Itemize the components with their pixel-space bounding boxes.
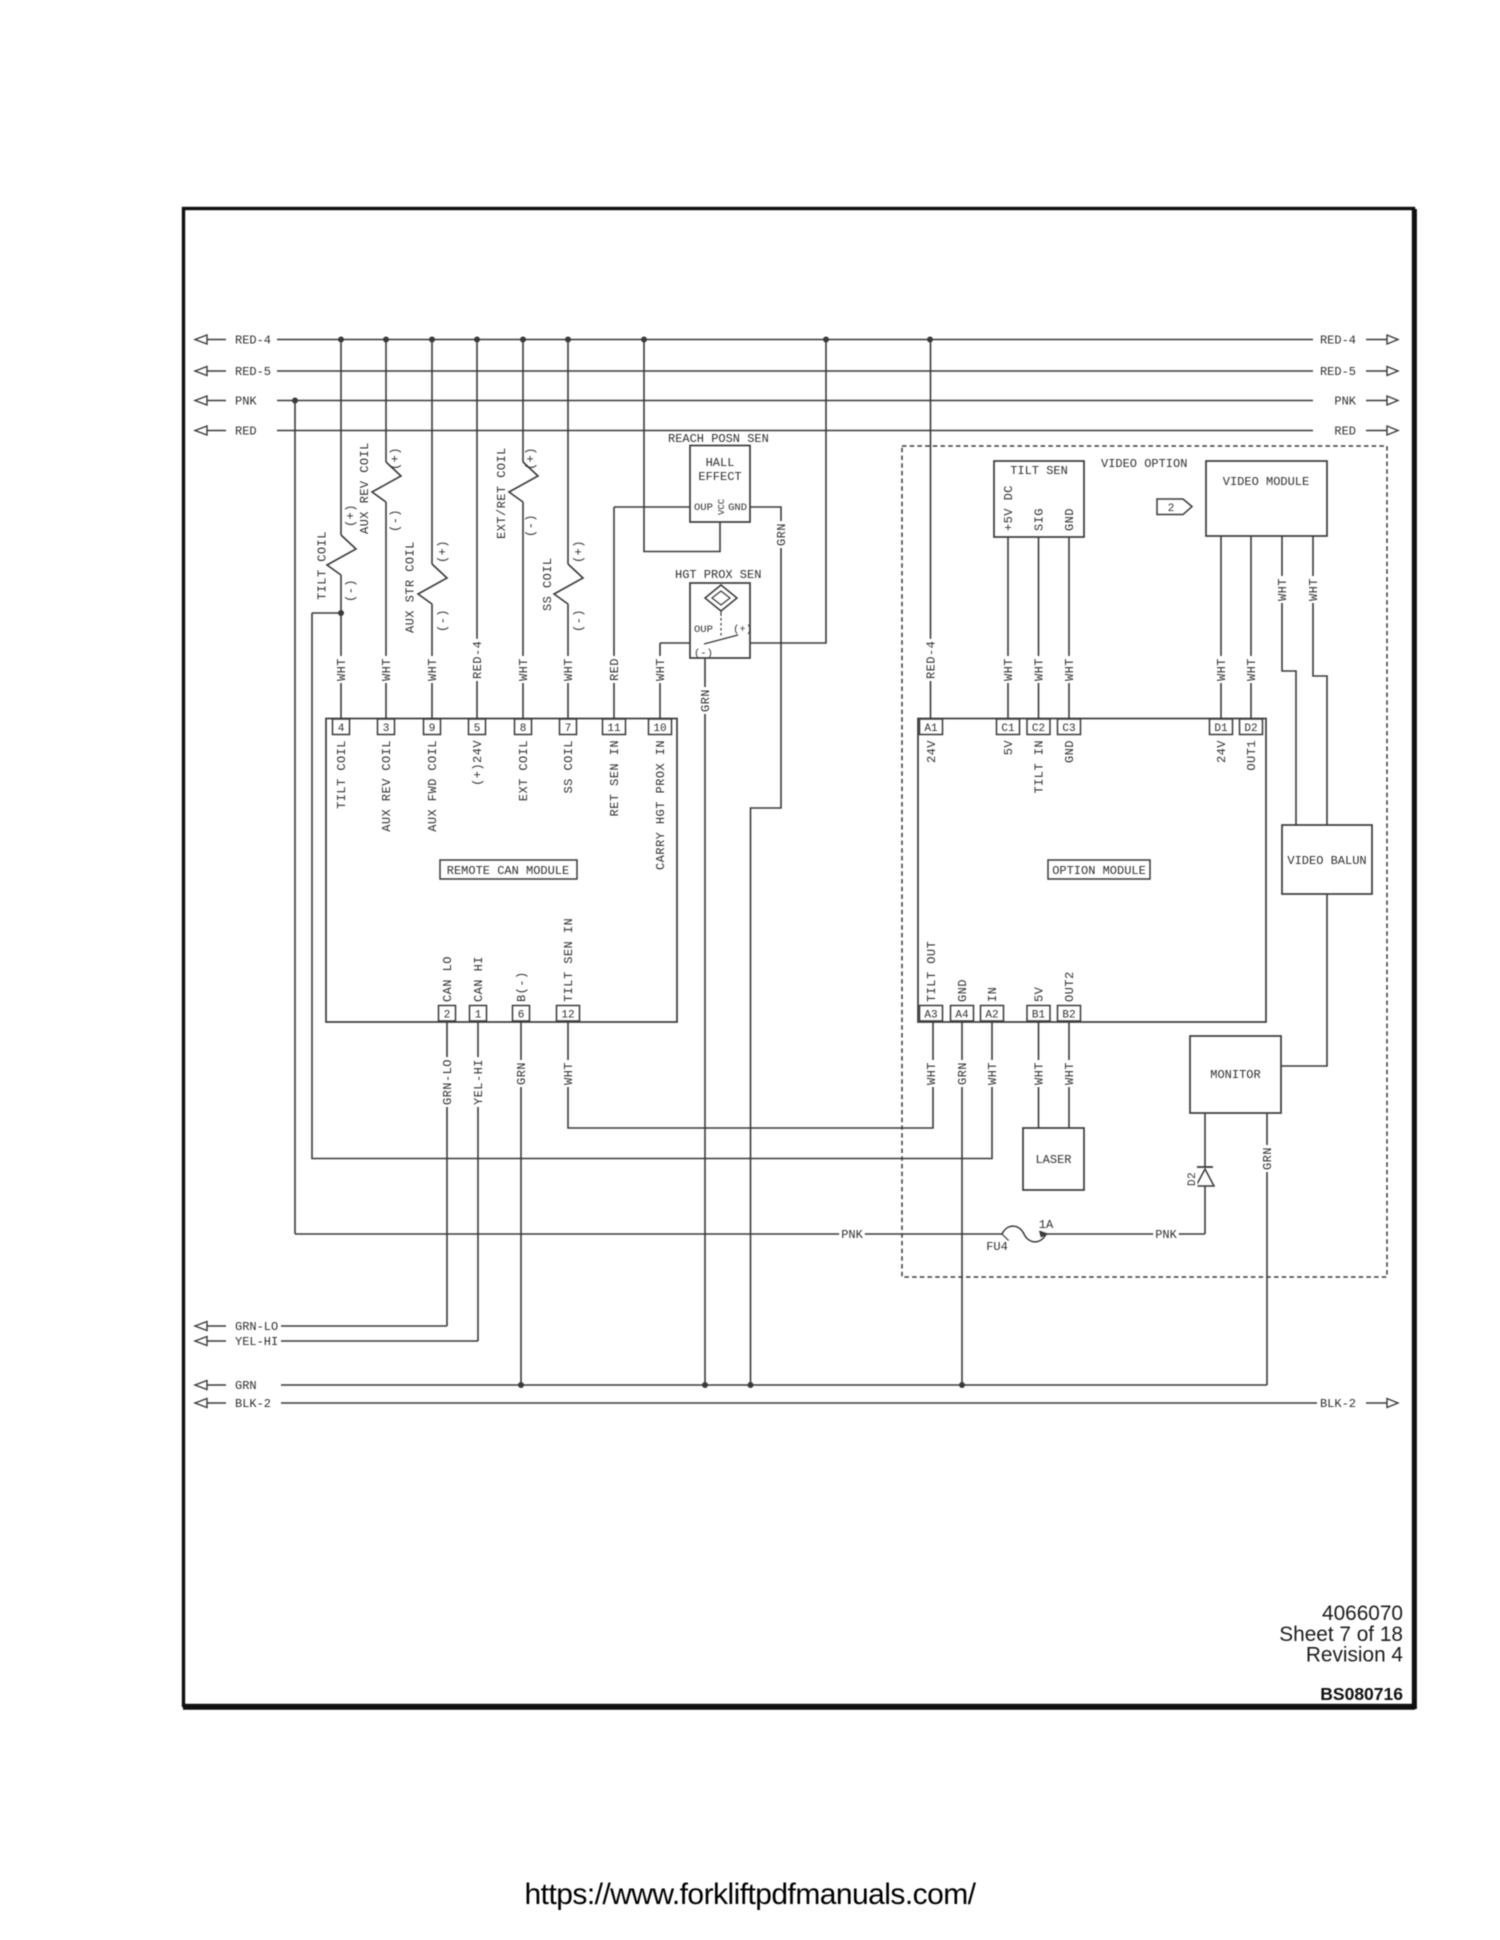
svg-text:BS080716: BS080716 [1320, 1684, 1403, 1704]
svg-text:(+): (+) [389, 447, 403, 470]
svg-text:3: 3 [383, 723, 390, 735]
svg-text:HGT PROX SEN: HGT PROX SEN [675, 568, 761, 582]
svg-text:1A: 1A [1039, 1218, 1054, 1232]
svg-text:(+)24V: (+)24V [471, 740, 485, 786]
svg-text:1: 1 [475, 1010, 482, 1022]
svg-text:WHT: WHT [1063, 658, 1077, 681]
svg-text:A4: A4 [955, 1010, 969, 1022]
svg-text:WHT: WHT [1033, 1062, 1047, 1085]
svg-text:WHT: WHT [1002, 658, 1016, 681]
svg-text:HALL: HALL [706, 456, 735, 470]
svg-text:AUX STR COIL: AUX STR COIL [404, 541, 418, 633]
svg-text:C1: C1 [1001, 723, 1015, 735]
svg-text:WHT: WHT [654, 658, 668, 681]
svg-text:IN: IN [986, 987, 1000, 1002]
svg-text:11: 11 [607, 723, 621, 735]
svg-text:PNK: PNK [841, 1228, 863, 1242]
svg-text:GRN: GRN [775, 523, 789, 546]
svg-text:(-): (-) [572, 609, 586, 632]
svg-text:CARRY HGT PROX IN: CARRY HGT PROX IN [654, 740, 668, 870]
svg-text:(-): (-) [524, 514, 538, 537]
svg-text:AUX REV COIL: AUX REV COIL [358, 442, 372, 534]
svg-text:RET SEN IN: RET SEN IN [608, 740, 622, 817]
svg-text:(+): (+) [733, 624, 752, 636]
svg-text:(+): (+) [344, 504, 358, 527]
svg-text:RED-4: RED-4 [235, 334, 271, 348]
svg-text:WHT: WHT [562, 1062, 576, 1085]
svg-text:TILT IN: TILT IN [1033, 740, 1047, 794]
svg-text:OUP: OUP [694, 502, 713, 514]
svg-text:2: 2 [444, 1010, 451, 1022]
svg-text:A1: A1 [924, 723, 938, 735]
svg-text:VIDEO BALUN: VIDEO BALUN [1287, 854, 1366, 868]
svg-text:5V: 5V [1002, 740, 1016, 756]
svg-text:AUX FWD COIL: AUX FWD COIL [426, 740, 440, 832]
svg-text:RED-5: RED-5 [235, 365, 271, 379]
svg-text:YEL-HI: YEL-HI [235, 1335, 278, 1349]
svg-text:WHT: WHT [380, 658, 394, 681]
svg-text:SS COIL: SS COIL [562, 740, 576, 794]
svg-text:VIDEO OPTION: VIDEO OPTION [1101, 457, 1187, 471]
svg-text:WHT: WHT [426, 658, 440, 681]
svg-text:4: 4 [338, 723, 345, 735]
svg-text:VCC: VCC [717, 498, 727, 515]
svg-text:(-): (-) [436, 609, 450, 632]
svg-text:9: 9 [429, 723, 436, 735]
svg-text:RED-4: RED-4 [471, 641, 485, 679]
svg-text:Revision 4: Revision 4 [1306, 1644, 1403, 1667]
svg-text:C2: C2 [1032, 723, 1045, 735]
svg-text:GRN: GRN [699, 689, 713, 712]
svg-text:8: 8 [520, 723, 527, 735]
svg-text:B1: B1 [1032, 1010, 1046, 1022]
svg-text:WHT: WHT [562, 658, 576, 681]
svg-text:WHT: WHT [335, 658, 349, 681]
svg-text:6: 6 [518, 1010, 525, 1022]
svg-text:YEL-HI: YEL-HI [472, 1059, 486, 1105]
svg-text:A2: A2 [985, 1010, 998, 1022]
svg-text:EFFECT: EFFECT [698, 470, 741, 484]
svg-text:WHT: WHT [1033, 658, 1047, 681]
svg-text:WHT: WHT [1215, 658, 1229, 681]
svg-text:CAN HI: CAN HI [472, 956, 486, 1002]
svg-text:WHT: WHT [517, 658, 531, 681]
svg-text:10: 10 [653, 723, 666, 735]
svg-text:TILT OUT: TILT OUT [925, 941, 939, 1002]
svg-text:GND: GND [728, 502, 747, 514]
svg-text:OUT2: OUT2 [1063, 971, 1077, 1002]
svg-text:WHT: WHT [1276, 578, 1290, 601]
svg-text:CAN LO: CAN LO [441, 956, 455, 1002]
svg-text:5: 5 [474, 723, 481, 735]
svg-text:TILT SEN: TILT SEN [1010, 464, 1068, 478]
svg-text:+5V DC: +5V DC [1002, 485, 1016, 531]
svg-text:RED-4: RED-4 [1320, 334, 1356, 348]
svg-text:GRN: GRN [1261, 1147, 1275, 1170]
svg-text:GRN-LO: GRN-LO [235, 1320, 278, 1334]
svg-text:AUX REV COIL: AUX REV COIL [380, 740, 394, 832]
svg-text:BLK-2: BLK-2 [235, 1397, 271, 1411]
svg-text:TILT SEN IN: TILT SEN IN [562, 918, 576, 1002]
svg-text:7: 7 [565, 723, 572, 735]
svg-text:GND: GND [956, 979, 970, 1002]
svg-text:MONITOR: MONITOR [1210, 1068, 1260, 1082]
svg-text:TILT COIL: TILT COIL [316, 531, 330, 600]
svg-text:RED: RED [1334, 425, 1356, 439]
svg-text:(+): (+) [572, 540, 586, 563]
svg-text:C3: C3 [1062, 723, 1075, 735]
svg-text:GND: GND [1063, 740, 1077, 763]
svg-text:B(-): B(-) [515, 971, 529, 1002]
svg-text:GRN-LO: GRN-LO [441, 1059, 455, 1105]
svg-text:12: 12 [561, 1010, 574, 1022]
svg-text:WHT: WHT [1307, 578, 1321, 601]
svg-text:4066070: 4066070 [1322, 1602, 1403, 1625]
svg-text:LASER: LASER [1035, 1153, 1071, 1167]
svg-text:RED-4: RED-4 [925, 641, 939, 679]
svg-text:WHT: WHT [986, 1062, 1000, 1085]
svg-text:VIDEO MODULE: VIDEO MODULE [1223, 475, 1309, 489]
svg-text:D1: D1 [1214, 723, 1228, 735]
svg-text:SIG: SIG [1033, 508, 1047, 531]
svg-text:REACH POSN SEN: REACH POSN SEN [668, 432, 769, 446]
svg-text:GRN: GRN [235, 1379, 257, 1393]
svg-text:PNK: PNK [1155, 1228, 1177, 1242]
svg-text:(-): (-) [344, 579, 358, 602]
svg-text:OUT1: OUT1 [1245, 740, 1259, 771]
svg-text:(-): (-) [694, 648, 713, 660]
svg-text:A3: A3 [924, 1010, 937, 1022]
svg-text:OUP: OUP [694, 624, 713, 636]
svg-text:D2: D2 [1187, 1172, 1199, 1186]
svg-text:GRN: GRN [956, 1062, 970, 1085]
svg-text:2: 2 [1168, 503, 1175, 515]
svg-text:WHT: WHT [925, 1062, 939, 1085]
svg-text:B2: B2 [1062, 1010, 1075, 1022]
svg-text:WHT: WHT [1063, 1062, 1077, 1085]
svg-text:WHT: WHT [1245, 658, 1259, 681]
svg-text:https://www.forkliftpdfmanuals: https://www.forkliftpdfmanuals.com/ [525, 1878, 977, 1911]
svg-text:FU4: FU4 [986, 1240, 1008, 1254]
svg-text:TILT COIL: TILT COIL [335, 740, 349, 809]
svg-text:EXT/RET COIL: EXT/RET COIL [495, 447, 509, 539]
svg-text:PNK: PNK [1334, 395, 1356, 409]
svg-text:24V: 24V [925, 740, 939, 763]
svg-text:GND: GND [1063, 508, 1077, 531]
svg-text:GRN: GRN [515, 1062, 529, 1085]
svg-text:PNK: PNK [235, 395, 257, 409]
svg-text:SS COIL: SS COIL [541, 557, 555, 611]
svg-text:OPTION MODULE: OPTION MODULE [1052, 864, 1146, 878]
svg-text:BLK-2: BLK-2 [1320, 1397, 1356, 1411]
svg-text:(-): (-) [389, 509, 403, 532]
svg-text:RED-5: RED-5 [1320, 365, 1356, 379]
svg-text:EXT COIL: EXT COIL [517, 740, 531, 801]
svg-text:D2: D2 [1244, 723, 1257, 735]
svg-text:5V: 5V [1033, 986, 1047, 1002]
svg-text:RED: RED [235, 425, 257, 439]
svg-text:(+): (+) [524, 447, 538, 470]
svg-text:(+): (+) [436, 540, 450, 563]
svg-text:24V: 24V [1215, 740, 1229, 763]
svg-text:RED: RED [608, 658, 622, 681]
svg-text:REMOTE CAN MODULE: REMOTE CAN MODULE [447, 864, 569, 878]
